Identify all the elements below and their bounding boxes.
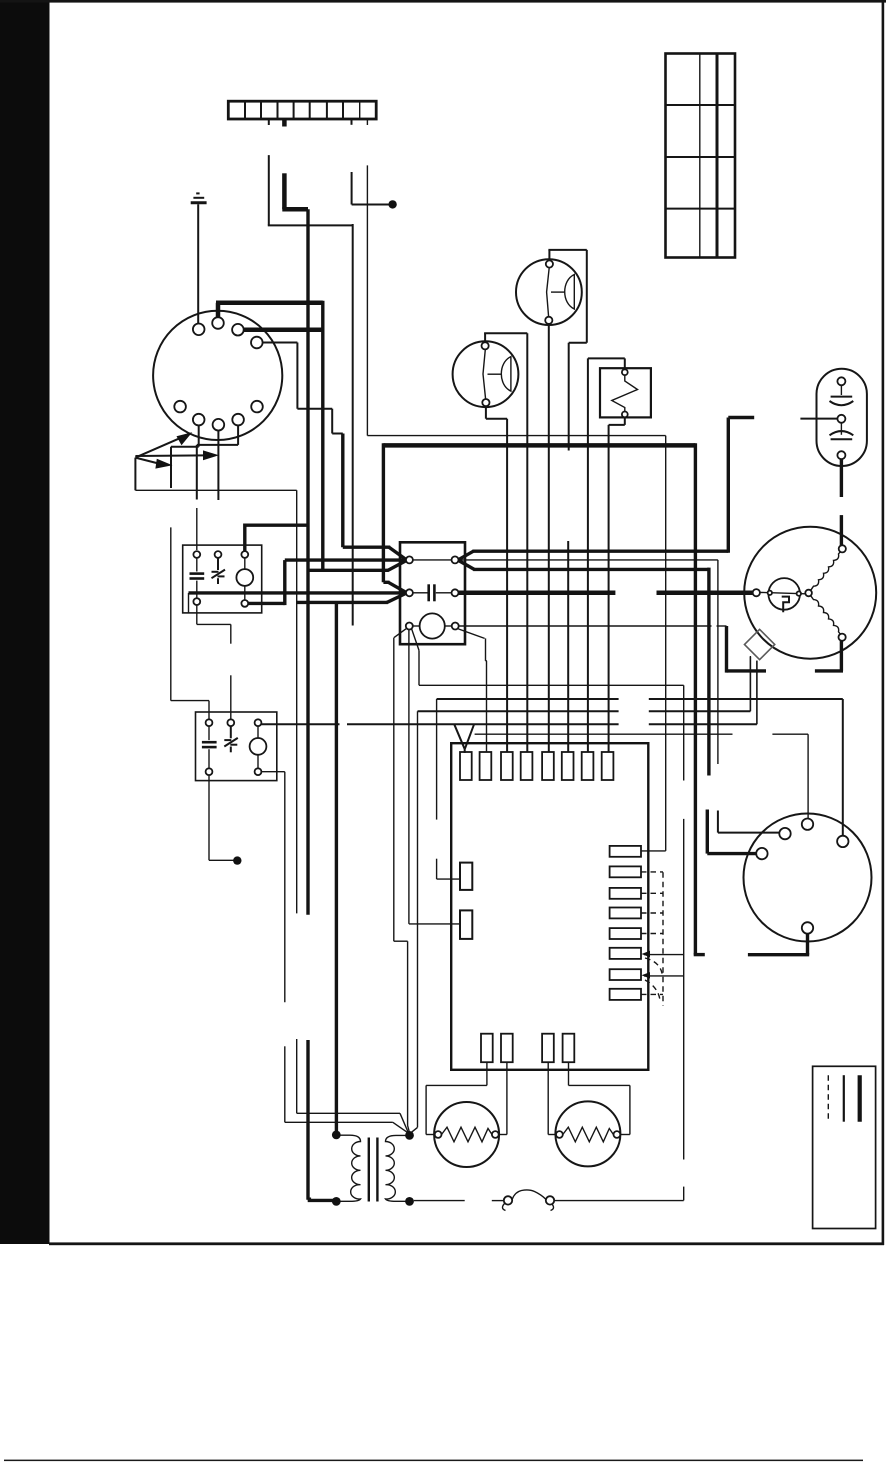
control board [451,743,648,1070]
strip stub R [366,119,368,125]
row4 V plug to board pin1 [454,724,474,753]
HSI element [442,1127,493,1142]
blower relay BR [183,545,262,613]
dashed stub 5 [641,933,663,935]
thick L2 bus [383,443,704,954]
FS pin L [556,1131,563,1138]
wire BM pin8 tap [197,426,238,500]
XOL wire 2 [756,661,758,724]
row3 drop to transformer [411,711,418,1133]
IC pin L3 [406,623,413,630]
wire G drop thick [352,224,354,626]
BR switch [212,558,226,584]
HR capacitor [202,726,217,768]
HSI pin R [492,1131,499,1138]
condenser fan motor CF [744,814,872,942]
flame sensor FS [555,1101,620,1166]
LS element [612,375,638,411]
LS pin bottom [622,412,628,418]
line legend box [813,1066,876,1228]
IC L3 wire3 to 24V row [412,629,419,686]
node dot HUM [233,856,241,864]
row2 drop to board pin [437,699,461,879]
IC pin L1 [406,556,413,563]
external overload XOL [744,629,774,659]
sensor wire 2 [569,1062,630,1134]
24V row 5 [475,734,808,818]
igniter wire 2 [499,1062,507,1134]
board edge pin 4 [521,752,533,780]
IC row1 link [413,559,452,561]
page black sidebar [0,0,50,1244]
BM pin 1 [193,324,205,336]
PS1 blade [547,268,550,317]
wire BM pin3 [244,327,325,332]
PS1 pin bottom [545,317,552,324]
RC fan wire [840,459,843,545]
BR pin T3 [241,551,248,558]
dashed stub 3 [641,892,663,894]
BM pin 7 [213,419,225,431]
COMP internal overload [768,578,800,612]
thermostat terminal strip [228,101,376,119]
wedge plug row1 right [458,551,728,775]
strip stub Y [282,119,287,127]
CF pin bottom [802,922,813,933]
dashed jumper curve [645,958,663,976]
row3 right wire [458,626,726,753]
board left pin TH [460,863,472,890]
wire R long [367,165,665,851]
BM pin 6 [193,414,205,426]
HR coil [250,726,267,768]
ground symbol [191,193,207,202]
BM pin 2 [212,317,224,329]
CF pin upleft [779,828,790,839]
RC plates bottom [830,423,854,439]
PS2 diaphragm [488,357,511,392]
compressor COMP [744,527,876,659]
node dot G [388,200,396,208]
CF pin top [802,819,813,830]
page bottom border [49,1242,884,1245]
board right spade 4 [610,908,641,919]
BR pin T2 [215,551,222,558]
board right spade 3 [610,888,641,899]
thick bus from Y down left column [306,209,309,1199]
TR node dot 1 [332,1131,341,1140]
board edge pin 7 [582,752,594,780]
board bottom pin 1 [481,1034,493,1063]
ignition control plug IC [400,542,465,644]
spade6 wire [642,951,684,957]
board left pin TR [460,910,472,939]
board edge pin 8 [602,752,614,780]
wire G with node [352,172,389,205]
PS1 top wire [548,250,586,451]
COMP center node [805,590,812,597]
FS pin R [614,1131,621,1138]
BR pin B1 [193,598,200,605]
board bottom pin 4 [563,1034,575,1063]
secondary common wire [414,1200,465,1202]
RC terminal H [837,377,845,385]
legend thick sample [858,1075,862,1122]
HR pin B3 [255,768,262,775]
heat relay HR [196,712,277,781]
fan feed drop [718,560,780,833]
page top border [0,0,886,3]
24V row 3 [418,657,751,711]
IC pin R2 [452,589,459,596]
HR pin T3 [255,719,262,726]
BM pin 3 [232,324,244,336]
COMP winding start [811,551,841,590]
wedge plug row2 left [189,582,407,612]
LS pin top [622,369,628,375]
BM pin 5 [174,401,186,413]
transformer primary lead 1 [335,602,338,1131]
HSI pin L [435,1131,442,1138]
PS1 top wire lower half [567,541,569,753]
COMP terminal C [753,589,760,596]
CF bottom wire plug [748,934,809,955]
wire BM pin6 tap [171,426,199,447]
BR pin B3 [241,600,248,607]
run cap drop wire [727,418,730,553]
strip stub W [268,119,270,125]
BR T3 to NO contact wire [248,560,285,605]
TR node dot 4 [405,1197,414,1206]
IC row3 coil [413,613,452,638]
PS2 pin top [482,342,489,349]
wire to blower relay pin1 [196,508,198,550]
24V row 2 [437,699,843,836]
hot surface igniter HSI [434,1102,499,1167]
HR pin B1 [206,768,213,775]
HR pin T1 [206,719,213,726]
wire BM pin2 L-feed [216,301,323,571]
BR coil [236,558,253,600]
BR capacitor [190,558,205,598]
dashed harness line [662,872,664,1006]
board right spade 8 [610,989,641,1000]
wedge plug row1 left [285,547,407,570]
PS2 bottom wire [486,406,507,752]
RC terminal F [837,451,845,459]
limit switch LS [600,368,651,417]
wire BM pin4 staircase [263,343,343,548]
24V row 4 [261,661,757,725]
speed common wire [135,458,296,491]
IC row2 capacitor [413,584,452,601]
wedge plug row2 right [459,591,754,596]
board edge pin 5 [542,752,554,780]
PS1 bottom wire [548,324,550,753]
board edge pin 1 [460,752,472,780]
BM pin 9 [251,401,263,413]
wire tap drop to heat relay [171,447,209,720]
HR B3 wire down [261,772,408,1133]
IC pin R3 [452,623,459,630]
transformer primary lead 2 [308,1198,333,1201]
ground wire [197,204,199,324]
spade7 wire [642,972,684,978]
board bottom pin 3 [542,1034,554,1063]
RC herm wire plug [728,418,837,419]
igniter wire 1 [426,1062,487,1134]
BR pin T1 [193,551,200,558]
board bottom pin 2 [501,1034,513,1063]
fuse link [492,1190,684,1211]
pressure switch PS1 [516,259,582,325]
XOL wire 1 [749,656,751,711]
board edge pin 2 [480,752,492,780]
wire Y thick drop [282,173,308,209]
IC pin L2 [406,589,413,596]
COMP run wire plug [727,626,844,673]
RC plates top [830,385,854,405]
BM pin 8 [232,414,244,426]
PS2 blade [483,350,486,400]
board right spade 5 [610,928,641,939]
board right spade 6 [610,948,641,959]
board edge pin 3 [501,752,513,780]
24V row 1 [419,685,684,1200]
COMP terminal S [839,545,846,552]
blower motor BM [153,311,282,440]
LS top wire [588,358,625,752]
dashed stub 4 [641,912,663,914]
legend thin sample [843,1075,845,1122]
pressure switch PS2 [453,341,519,407]
board edge pin 6 [562,752,574,780]
COMP pin links [760,591,806,596]
CF pin left [756,848,767,859]
board right spade 7 [610,969,641,980]
PS1 pin top [546,260,553,267]
IC pin R1 [452,556,459,563]
COMP winding run [811,596,841,635]
PS2 top wire [484,333,527,752]
PS2 pin bottom [482,399,489,406]
sensor wire 1 [548,1062,556,1134]
TR node dot 2 [332,1197,341,1206]
BM pin 4 [251,337,263,349]
IC L3 wire2 to board [409,630,461,924]
page right border [882,0,885,1245]
IC L3 wire1 to transformer [394,629,409,1132]
legend dashed sample [827,1075,829,1122]
dashed jumper curve 2 [645,980,660,1000]
BR B1 wire to heat relay [197,605,231,719]
RC terminal C [837,415,845,423]
dashed stub 8 [641,993,663,995]
COMP terminal R [839,634,846,641]
run capacitor RC [817,369,867,466]
strip stub G [351,119,353,125]
HR pin T2 [227,719,234,726]
transformer TR [336,1135,409,1201]
footer rule [4,1460,863,1462]
CF thick feed [707,810,756,854]
PS1 diaphragm [551,275,574,310]
wire W to junction [268,155,353,225]
speed selector arrows [135,432,219,468]
LS bottom wire [609,417,625,752]
HR B1 wire to node [209,775,234,860]
CF pin upright [837,836,848,847]
TR node dot 3 [405,1131,414,1140]
legend table [666,54,736,258]
board right spade 2 [610,866,641,877]
FS element [563,1127,614,1142]
dashed stub 2 [641,871,663,873]
branch to blower relay coil [245,524,309,552]
HR switch [224,726,238,752]
wire BM pin7 tap [217,431,219,500]
24V common riser [297,490,409,1132]
board right spade 1 [610,846,641,857]
